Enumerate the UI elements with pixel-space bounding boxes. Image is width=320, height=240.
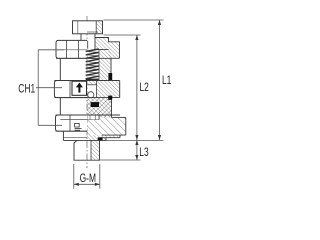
dimension L1 xyxy=(104,20,164,141)
lower hex top edge xyxy=(56,114,121,116)
body tube outline xyxy=(110,58,112,80)
hex body section hatch xyxy=(97,81,120,98)
locknut facet xyxy=(66,40,68,58)
cap facet line left xyxy=(77,21,79,34)
svg-text:G-M: G-M xyxy=(80,173,96,186)
seal black flange xyxy=(98,137,103,140)
flange section hatch xyxy=(87,138,106,141)
cap facet line xyxy=(95,21,97,34)
lower hex bottom edge xyxy=(56,130,88,132)
lower section outline xyxy=(111,98,113,118)
threaded stud xyxy=(74,140,100,160)
hex body left half xyxy=(54,81,87,98)
stud thread hatch xyxy=(91,140,100,160)
cap section hatch xyxy=(96,21,102,33)
spring xyxy=(86,49,99,52)
flange bottom edge xyxy=(63,139,106,141)
seal black upper xyxy=(108,73,112,81)
screw edge in section xyxy=(87,40,89,49)
dimension L2 xyxy=(104,35,141,140)
hex body facet xyxy=(69,81,71,98)
valve ball xyxy=(88,92,94,98)
hex body right edge xyxy=(119,81,121,98)
adjusting cap xyxy=(73,21,103,34)
lower hex facet xyxy=(69,115,71,131)
body tube hatch xyxy=(99,50,111,81)
logo mark xyxy=(75,123,82,130)
dimension CH1 xyxy=(36,50,64,126)
dimension G-M xyxy=(74,164,100,189)
gland outline xyxy=(95,38,120,59)
chamber wall xyxy=(96,81,98,98)
flange seam xyxy=(63,137,87,139)
stud thread root xyxy=(90,140,92,160)
spring bore wall xyxy=(98,50,100,81)
spring seat xyxy=(86,78,99,80)
lower section hatch xyxy=(87,98,112,118)
flow arrow xyxy=(78,87,80,93)
svg-text:CH1: CH1 xyxy=(18,83,35,96)
recess neck xyxy=(59,58,61,80)
gland section hatch xyxy=(95,38,109,50)
thin shim band xyxy=(87,135,120,138)
flow arrow box xyxy=(72,81,87,95)
lower hex seam xyxy=(60,119,99,121)
svg-text:L2: L2 xyxy=(140,82,150,95)
bore white xyxy=(88,116,99,120)
dimension L3 xyxy=(100,140,141,160)
lower hex left half xyxy=(56,115,88,131)
locknut bottom edge xyxy=(56,57,120,59)
locknut left half xyxy=(56,40,87,58)
hex body top edge xyxy=(54,80,119,82)
hex body bottom edge xyxy=(54,97,119,99)
flange xyxy=(62,131,64,140)
seal black small xyxy=(108,96,112,100)
seat housing section xyxy=(87,117,126,135)
chamber top hatch xyxy=(88,81,97,85)
centerline axis xyxy=(86,16,88,168)
cap inner line xyxy=(87,31,98,33)
screw stem xyxy=(81,34,95,41)
lower neck xyxy=(59,98,61,115)
locknut arc line xyxy=(56,49,87,51)
svg-text:L3: L3 xyxy=(139,147,149,160)
seal black mid xyxy=(91,102,99,107)
svg-text:L1: L1 xyxy=(162,75,172,88)
